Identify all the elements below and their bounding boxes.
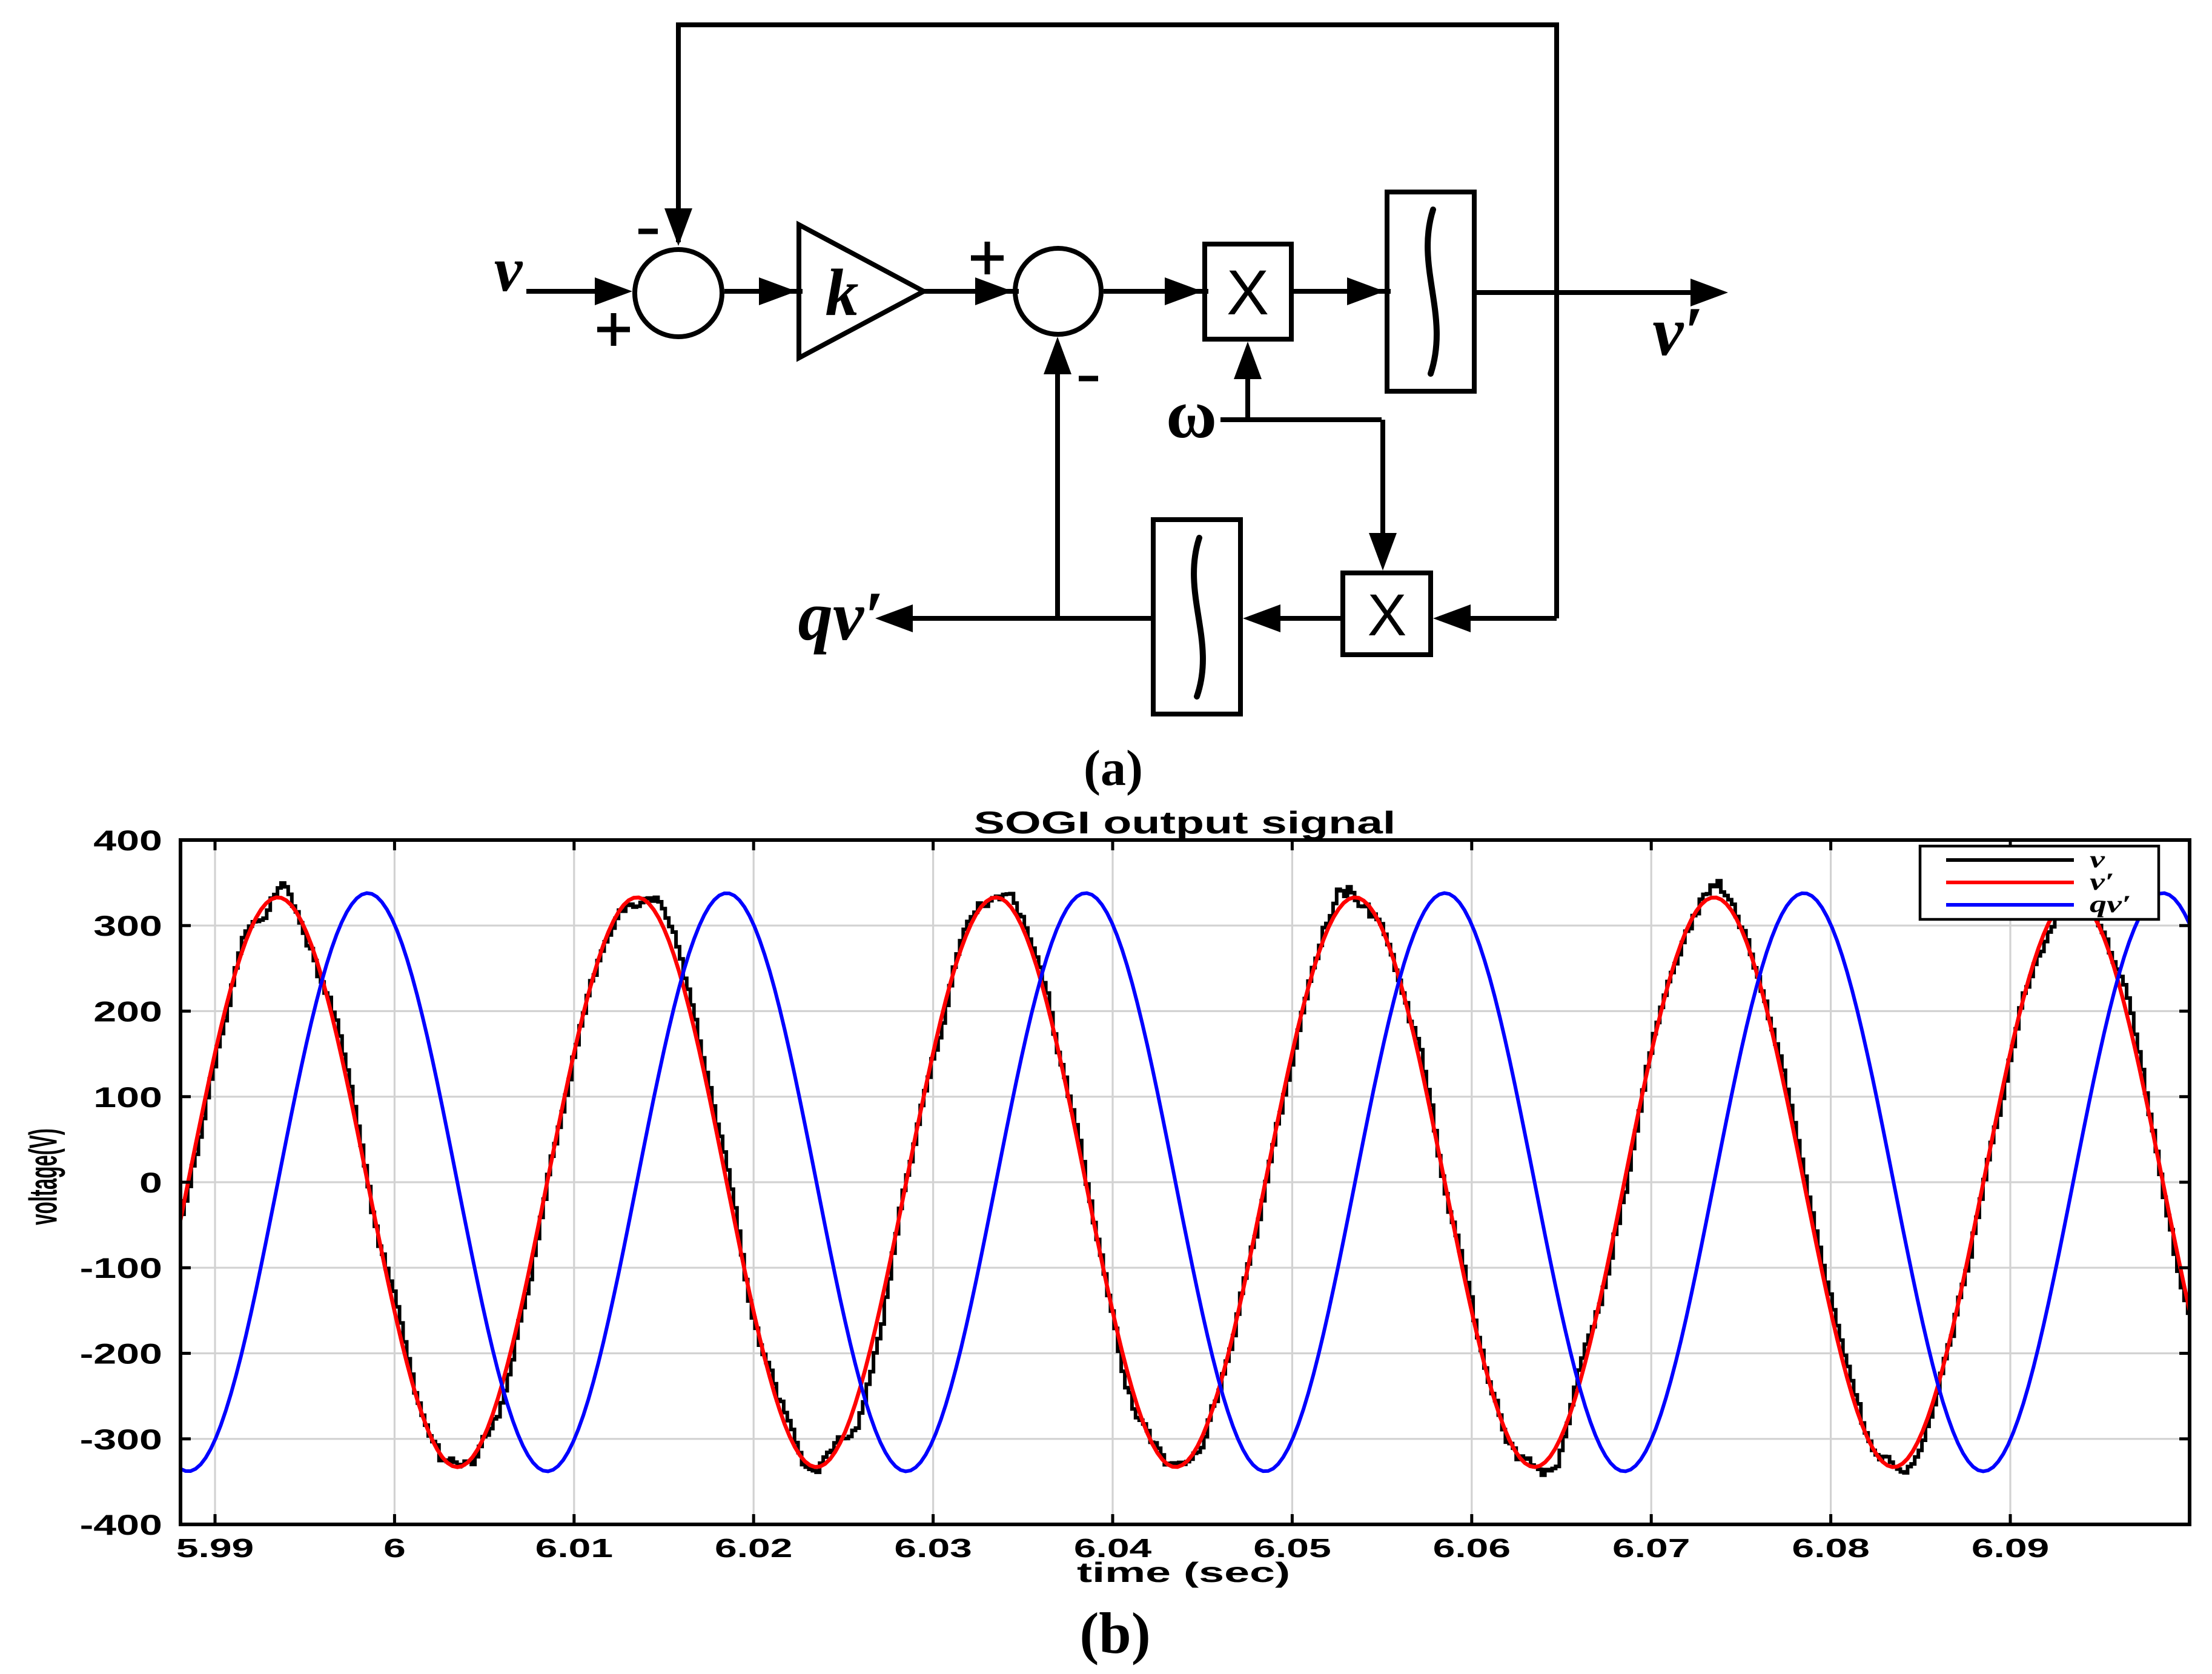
svg-text:(b): (b) bbox=[1079, 1601, 1150, 1666]
svg-text:6.08: 6.08 bbox=[1792, 1533, 1869, 1563]
svg-text:SOGI output signal: SOGI output signal bbox=[974, 805, 1396, 840]
svg-text:-400: -400 bbox=[80, 1509, 162, 1541]
svg-text:100: 100 bbox=[93, 1082, 162, 1113]
svg-text:6.03: 6.03 bbox=[894, 1533, 972, 1563]
svg-text:X: X bbox=[1368, 582, 1407, 648]
svg-text:0: 0 bbox=[139, 1167, 162, 1199]
svg-text:X: X bbox=[1227, 257, 1269, 328]
svg-text:-100: -100 bbox=[80, 1252, 162, 1284]
svg-text:300: 300 bbox=[93, 910, 162, 942]
svg-text:ω: ω bbox=[1166, 375, 1217, 452]
svg-text:6.07: 6.07 bbox=[1612, 1533, 1690, 1563]
svg-text:qv′: qv′ bbox=[2090, 891, 2131, 918]
svg-text:voltage(V): voltage(V) bbox=[22, 1128, 65, 1225]
svg-text:200: 200 bbox=[93, 996, 162, 1028]
svg-text:-300: -300 bbox=[80, 1424, 162, 1455]
svg-text:6: 6 bbox=[383, 1533, 406, 1563]
svg-text:6.01: 6.01 bbox=[535, 1533, 613, 1563]
svg-text:6.06: 6.06 bbox=[1433, 1533, 1511, 1563]
svg-text:time (sec): time (sec) bbox=[1077, 1557, 1290, 1589]
svg-text:v: v bbox=[494, 234, 523, 305]
svg-text:qv′: qv′ bbox=[798, 578, 884, 655]
svg-text:(a): (a) bbox=[1084, 740, 1143, 796]
svg-text:6.09: 6.09 bbox=[1972, 1533, 2049, 1563]
svg-text:v′: v′ bbox=[1652, 293, 1703, 370]
svg-text:6.02: 6.02 bbox=[715, 1533, 792, 1563]
svg-text:k: k bbox=[826, 256, 859, 329]
svg-text:-200: -200 bbox=[80, 1338, 162, 1370]
svg-text:400: 400 bbox=[93, 825, 162, 856]
svg-text:5.99: 5.99 bbox=[176, 1533, 254, 1563]
